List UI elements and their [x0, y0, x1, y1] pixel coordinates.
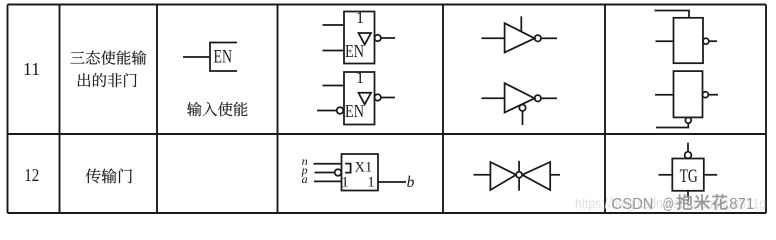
svg-text:EN: EN	[345, 41, 364, 61]
wire output	[381, 97, 395, 99]
inversion bubble input p	[335, 169, 342, 176]
inversion bubble output	[703, 38, 709, 44]
wire input A	[323, 24, 345, 26]
wire input n	[314, 163, 342, 165]
cell text: transmission gate	[86, 168, 132, 183]
svg-text:EN: EN	[345, 101, 364, 121]
svg-text:b: b	[407, 174, 415, 191]
EN enable input symbol (col 3)	[183, 43, 237, 72]
wire output b	[378, 181, 406, 183]
internal bracket	[345, 164, 350, 173]
wire output	[381, 37, 395, 39]
inversion bubble control top	[685, 152, 692, 159]
triangle (output polarity)	[359, 93, 372, 105]
svg-text:@: @	[663, 196, 675, 213]
triangle body	[505, 23, 535, 52]
cell text: input enable	[187, 102, 247, 116]
wire input	[482, 97, 505, 99]
svg-text:X1: X1	[355, 160, 373, 176]
inversion bubble control	[516, 172, 522, 178]
wire output	[541, 37, 557, 39]
watermark name	[676, 194, 727, 210]
tri-state inverter U3 (distinctive shape, top enable)	[482, 16, 558, 52]
wire control (vertical)	[518, 161, 520, 191]
wire enable (top, bent)	[655, 11, 690, 18]
wire input p (active low)	[315, 172, 335, 174]
wire output	[541, 97, 557, 99]
inversion bubble output	[375, 35, 381, 41]
svg-text:a: a	[302, 172, 308, 186]
tri-state inverter U2 (IEC symbol, active-low EN)	[317, 72, 395, 125]
tri-state inverter U1 (IEC symbol, active-high EN)	[323, 12, 396, 64]
transmission gate TG (box symbol)	[659, 143, 718, 203]
body U1	[344, 12, 375, 64]
inversion bubble EN input	[337, 107, 344, 114]
body U5	[674, 18, 704, 63]
body U2	[344, 72, 375, 125]
svg-text:EN: EN	[214, 47, 233, 68]
tri-state inverter U4 (distinctive shape, active-low bottom enable)	[482, 83, 558, 125]
wire output right	[704, 174, 717, 176]
wire output	[708, 94, 718, 96]
wire input EN	[323, 50, 345, 52]
svg-text:1: 1	[356, 68, 364, 87]
wire input	[482, 37, 505, 39]
transmission gate (distinctive bowtie symbol)	[474, 161, 561, 191]
body X1	[342, 154, 379, 191]
EN bracket	[210, 43, 237, 72]
triangle (output polarity)	[359, 33, 372, 45]
svg-text:871: 871	[729, 196, 754, 213]
triangle body	[505, 83, 535, 112]
svg-text:1: 1	[356, 8, 364, 27]
wire input	[656, 40, 674, 42]
tri-state inverter U5 (rectangle symbol, top enable)	[655, 11, 718, 64]
inversion bubble enable	[519, 105, 525, 111]
transmission gate X1 (IEC symbol)	[314, 154, 407, 191]
inversion bubble output	[703, 92, 709, 98]
cell text: tri-state enable output NOT gate	[70, 50, 146, 87]
wire input	[655, 94, 674, 96]
left triangle	[490, 162, 516, 190]
wire enable (bottom)	[522, 111, 524, 125]
inversion bubble output	[535, 35, 541, 41]
svg-text:12: 12	[24, 165, 39, 185]
wire input a	[314, 180, 342, 182]
svg-text:CSDN: CSDN	[612, 196, 654, 213]
wire control top	[687, 143, 689, 152]
right triangle	[522, 162, 550, 190]
inversion bubble enable	[685, 117, 691, 123]
wire control bottom	[687, 191, 689, 203]
wire input	[474, 174, 491, 176]
wire input A	[323, 85, 345, 87]
svg-text:1: 1	[367, 175, 375, 191]
svg-text:TG: TG	[680, 166, 698, 187]
wire enable (top)	[520, 16, 522, 31]
inversion bubble output	[535, 95, 541, 101]
wire output	[709, 40, 717, 42]
body U6	[674, 71, 703, 117]
svg-text:11: 11	[23, 59, 40, 79]
tri-state inverter U6 (rectangle symbol, active-low bottom enable)	[655, 71, 718, 127]
wire enable (bottom, bent)	[656, 123, 688, 127]
wire input	[183, 56, 210, 58]
inversion bubble output	[375, 94, 381, 100]
wire input left	[659, 174, 673, 176]
svg-text:1: 1	[341, 175, 349, 191]
wire output	[550, 174, 560, 176]
wire input EN (active low)	[317, 110, 337, 112]
body TG	[672, 159, 704, 191]
